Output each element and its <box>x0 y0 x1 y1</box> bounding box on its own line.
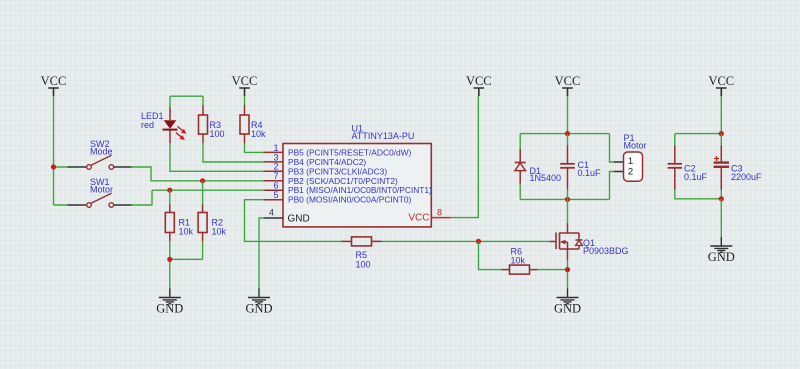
wire VCC2 to R4 <box>244 96 246 105</box>
ground GND3 <box>554 289 581 316</box>
wire VCC rail to switches <box>54 96 68 205</box>
wire SW1 to PB1 <box>132 190 264 205</box>
wire R4 to PB5 <box>245 143 264 152</box>
svg-text:GND: GND <box>245 302 272 316</box>
resistor R4 <box>240 105 266 143</box>
wire LED/R3 top bridge <box>170 96 203 107</box>
svg-text:GND: GND <box>554 302 581 316</box>
svg-text:1N5400: 1N5400 <box>530 173 562 183</box>
svg-text:VCC: VCC <box>232 74 258 88</box>
svg-text:0.1uF: 0.1uF <box>578 168 602 178</box>
LED1 emission arrows <box>178 127 185 132</box>
svg-text:1: 1 <box>273 143 278 153</box>
svg-text:8: 8 <box>437 207 442 217</box>
U1 pin labels <box>288 147 432 204</box>
wire PB0 to R5 <box>245 200 342 242</box>
svg-text:4: 4 <box>269 208 274 218</box>
wire C2/C3 top link <box>675 134 722 146</box>
svg-text:10k: 10k <box>251 129 266 139</box>
U1 pin numbers <box>273 143 278 200</box>
wire VCC4 to top loop <box>567 96 569 134</box>
svg-text:100: 100 <box>210 129 225 139</box>
capacitor C3 (polarized) <box>714 134 762 199</box>
svg-text:P0903BDG: P0903BDG <box>583 246 629 256</box>
svg-text:2200uF: 2200uF <box>731 172 762 182</box>
svg-text:VCC: VCC <box>41 74 67 88</box>
junction top loop <box>565 131 570 136</box>
resistor R1 <box>165 205 193 242</box>
svg-text:Mode: Mode <box>90 147 113 157</box>
ground GND2 <box>245 289 272 316</box>
junction R1/R2 bottom <box>167 257 172 262</box>
svg-text:VCC: VCC <box>466 74 492 88</box>
power flag VCC3 <box>466 74 492 96</box>
svg-text:100: 100 <box>356 260 371 270</box>
wire pin8 to VCC3 <box>451 96 478 218</box>
svg-text:2: 2 <box>628 167 633 178</box>
svg-text:R5: R5 <box>356 250 368 260</box>
wire LED1 to PB3 <box>170 143 264 171</box>
junction PB2 / R2 <box>200 178 205 183</box>
resistor R5 <box>342 237 382 270</box>
svg-text:GND: GND <box>288 214 310 225</box>
capacitor C2 <box>668 146 708 190</box>
wire C3 bottom to GND4 <box>720 199 722 237</box>
wire R6 to source node <box>538 269 568 271</box>
wire R1/R2 bottoms <box>170 241 203 289</box>
wire pin4 to GND2 <box>259 218 264 289</box>
svg-text:Motor: Motor <box>90 185 113 195</box>
svg-text:VCC: VCC <box>708 74 734 88</box>
resistor R6 <box>502 247 538 275</box>
U1 pin stubs 1,3,2,7,6,5 <box>264 152 284 199</box>
ground GND1 <box>156 289 183 316</box>
wire R5 to gate node <box>382 240 551 242</box>
svg-text:VCC: VCC <box>555 74 581 88</box>
svg-text:6: 6 <box>273 181 278 191</box>
junction gate node <box>476 239 481 244</box>
power flag VCC4 <box>555 74 581 96</box>
wire R3 to PB4 <box>203 143 264 162</box>
power flag VCC5 <box>708 74 734 96</box>
svg-text:red: red <box>141 120 154 130</box>
junction PB1 / R1 <box>167 188 172 193</box>
resistor R3 <box>199 105 225 143</box>
svg-text:PB1 (MISO/AIN1/OC0B/INT0/PCINT: PB1 (MISO/AIN1/OC0B/INT0/PCINT1) <box>288 185 432 195</box>
wire SW2 to PB2 <box>132 167 264 181</box>
svg-text:VCC: VCC <box>408 213 429 224</box>
capacitor C1 <box>560 134 601 200</box>
svg-text:1: 1 <box>628 156 633 167</box>
svg-text:GND: GND <box>708 250 735 264</box>
svg-text:2: 2 <box>273 162 278 172</box>
svg-text:10k: 10k <box>511 256 526 266</box>
wire bottom loop <box>520 172 614 200</box>
wire gate node to R6 <box>479 241 502 269</box>
wire R1 top <box>169 190 171 204</box>
IC U1 ATTINY13A-PU <box>283 124 431 227</box>
junction VCC rail / SW2 <box>51 164 56 169</box>
svg-text:10k: 10k <box>179 227 194 237</box>
connector P1 Motor <box>614 133 647 181</box>
svg-text:PB3 (PCINT3/CLKI/ADC3): PB3 (PCINT3/CLKI/ADC3) <box>288 166 387 176</box>
wire top loop D1/C1/P1 <box>520 134 614 162</box>
svg-text:0.1uF: 0.1uF <box>684 172 708 182</box>
junction C2/C3 top <box>719 131 724 136</box>
svg-text:5: 5 <box>273 190 278 200</box>
wire drain <box>567 199 569 223</box>
switch SW2 <box>68 139 132 169</box>
svg-text:PB5 (PCINT5/RESET/ADC0/dW): PB5 (PCINT5/RESET/ADC0/dW) <box>288 147 412 157</box>
svg-text:PB0 (MOSI/AIN0/OC0A/PCINT0): PB0 (MOSI/AIN0/OC0A/PCINT0) <box>288 195 412 205</box>
junction bottom loop / drain <box>565 197 570 202</box>
transistor Q1 P0903BDG <box>550 223 629 260</box>
junction source / R6 <box>565 267 570 272</box>
diode D1 <box>515 149 561 184</box>
resistor R2 <box>198 205 226 242</box>
svg-text:GND: GND <box>156 302 183 316</box>
power flag VCC1 <box>41 74 67 96</box>
U1 pin 4 GND <box>264 208 310 225</box>
LED LED1 <box>141 108 187 144</box>
switch SW1 <box>68 177 132 207</box>
svg-text:Motor: Motor <box>624 141 647 151</box>
svg-text:ATTINY13A-PU: ATTINY13A-PU <box>352 131 415 141</box>
ground GND4 <box>708 237 735 264</box>
svg-text:10k: 10k <box>212 227 227 237</box>
wire source to GND <box>567 260 569 289</box>
wire VCC5 down to C3 top <box>720 96 722 134</box>
wire R2 top <box>202 181 204 205</box>
junction C2/C3 bottom <box>719 196 724 201</box>
U1 pin 8 VCC <box>408 207 451 223</box>
power flag VCC2 <box>232 74 258 96</box>
wire C2 bottom link <box>675 190 722 199</box>
